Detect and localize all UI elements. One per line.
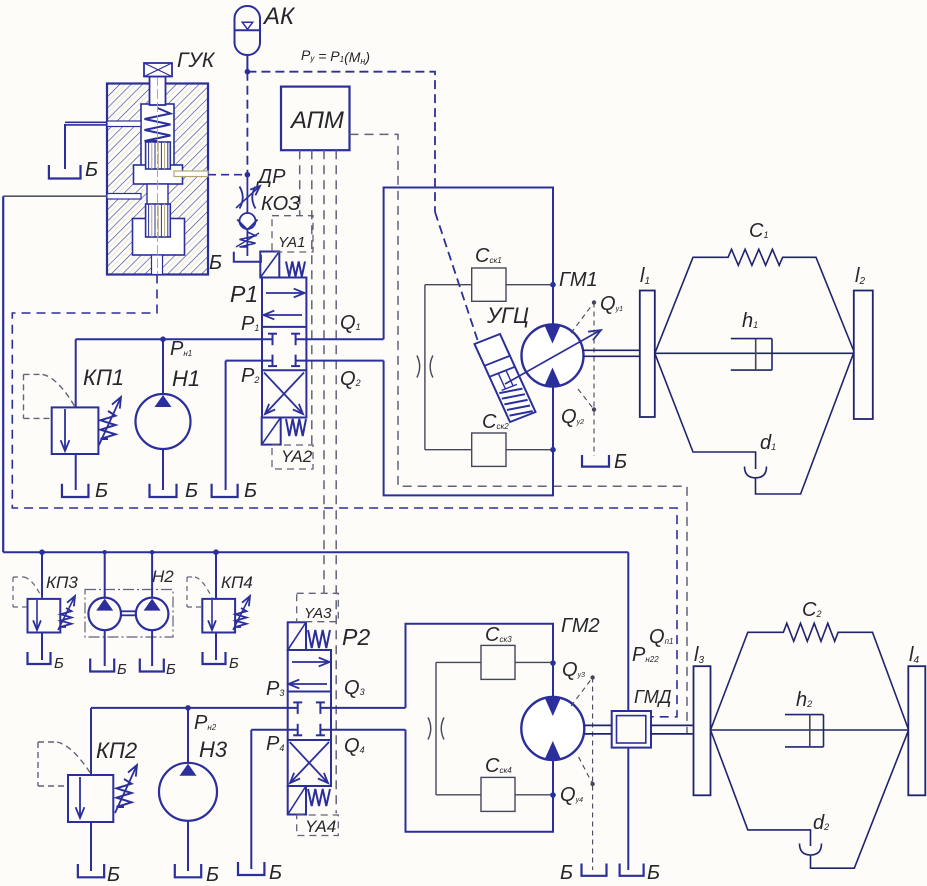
label B H2 right bbox=[166, 661, 176, 678]
wire KP4 drain bbox=[215, 633, 217, 661]
wire P4 drain line bbox=[251, 729, 297, 731]
label B GM1 bbox=[614, 451, 627, 473]
control cylinder UGC bbox=[475, 334, 536, 422]
svg-text:Н2: Н2 bbox=[152, 567, 174, 586]
tank B under H1 bbox=[150, 484, 177, 497]
relief valve KP2 bbox=[68, 765, 137, 822]
wire Q2 riser down bbox=[384, 361, 553, 496]
wire Q4 riser down bbox=[406, 730, 554, 832]
label APM bbox=[289, 107, 344, 134]
pilot dashed KP1 bbox=[24, 374, 75, 418]
node Cck4 bbox=[550, 792, 556, 798]
label KP2 bbox=[96, 738, 137, 763]
svg-text:Р2: Р2 bbox=[342, 624, 370, 650]
label B GMD bbox=[647, 862, 660, 884]
node PH1-H1 bbox=[160, 336, 166, 342]
relief valve KP1 bbox=[52, 397, 121, 454]
svg-text:ГМ2: ГМ2 bbox=[561, 615, 600, 637]
label KP3 bbox=[46, 573, 78, 592]
tank B at GUK bbox=[49, 165, 81, 179]
node AK junction bbox=[245, 69, 251, 75]
node Qy3 bbox=[590, 675, 594, 679]
wire Q1 riser up bbox=[384, 188, 553, 340]
svg-text:Б: Б bbox=[166, 661, 176, 678]
svg-text:УГЦ: УГЦ bbox=[486, 303, 529, 328]
pilot line Py dashed bbox=[247, 72, 477, 340]
label B KO3 bbox=[209, 252, 222, 274]
control line APM-YA4 dashed bbox=[335, 150, 337, 813]
valve P2 port stubs bbox=[293, 702, 325, 735]
spring YA4 bbox=[308, 789, 330, 806]
label B KP2 bbox=[107, 864, 120, 886]
valve P1 position-a arrows bbox=[264, 289, 305, 320]
svg-text:Н3: Н3 bbox=[199, 737, 228, 762]
svg-text:КП1: КП1 bbox=[83, 365, 124, 390]
spring C2 branch bbox=[711, 623, 909, 730]
label B P4 drain bbox=[269, 862, 282, 884]
wire Cck1 right bbox=[506, 284, 553, 286]
control line APM right dashed bbox=[350, 134, 688, 734]
tank B under KP2 bbox=[78, 864, 104, 877]
tank B under KP1 bbox=[62, 484, 88, 497]
damper h1 bbox=[731, 339, 772, 371]
label C1 bbox=[749, 220, 768, 242]
pump H1 bbox=[136, 394, 191, 449]
label P3 port bbox=[266, 678, 284, 700]
backlash d2 branch bbox=[711, 730, 909, 868]
node PH2-H3 bbox=[185, 705, 191, 711]
spring YA2 bbox=[286, 419, 306, 436]
wire P2 drain bbox=[225, 361, 227, 490]
label YA4 bbox=[305, 817, 336, 836]
spring YA3 bbox=[308, 630, 330, 648]
label UGC bbox=[486, 303, 529, 328]
wire H3 drain bbox=[187, 821, 189, 871]
pilot dashed KP3 bbox=[13, 577, 42, 607]
wire KP4 riser bbox=[215, 552, 217, 599]
label Q3 port bbox=[344, 677, 365, 699]
solenoid YA4 bbox=[288, 786, 306, 815]
node Cck2 bbox=[550, 447, 556, 453]
node KP4 tee bbox=[213, 549, 219, 555]
backlash d1 branch bbox=[655, 353, 854, 495]
control line APM-YA3 dashed bbox=[323, 150, 325, 593]
hydraulic motor GM2 bbox=[521, 697, 584, 760]
UGC displacement arrow bbox=[505, 330, 601, 384]
label B KP4 bbox=[229, 655, 239, 672]
label P1 port bbox=[241, 313, 259, 335]
label Cck4 bbox=[485, 755, 512, 777]
controller APM bbox=[281, 87, 350, 151]
wire KO3 to tank bbox=[246, 247, 248, 256]
wire Q3 riser up bbox=[406, 624, 554, 708]
wire AK to DR dashed bbox=[246, 72, 248, 175]
wire Q2 line bbox=[296, 360, 384, 362]
wire KP3 riser bbox=[41, 552, 43, 599]
pilot dashed KP4 bbox=[187, 577, 212, 607]
node H2 right tee bbox=[150, 550, 154, 554]
leakage box Cck2 bbox=[472, 433, 506, 466]
leakage box Cck3 bbox=[481, 645, 515, 679]
spring C1 branch bbox=[655, 249, 854, 353]
wire pump line bbox=[3, 551, 628, 553]
label Qy4 bbox=[560, 784, 583, 806]
solenoid YA2 bbox=[262, 418, 281, 445]
svg-text:Б: Б bbox=[107, 864, 120, 886]
label h2 bbox=[796, 689, 812, 711]
tank B at GM1 bbox=[582, 455, 609, 467]
valve P2 position-b crossed arrows bbox=[290, 742, 329, 783]
label P4 port bbox=[266, 733, 284, 755]
pilot dashed GUK loop bbox=[12, 275, 677, 717]
wire KP1 riser bbox=[75, 339, 77, 407]
wire GUK to tank B bbox=[65, 122, 107, 169]
label AK bbox=[262, 3, 296, 30]
node Cck1 bbox=[550, 282, 556, 288]
label B H2 left bbox=[117, 661, 127, 678]
svg-text:Б: Б bbox=[185, 480, 198, 502]
label P1 big bbox=[230, 281, 258, 307]
wire KP1 drain bbox=[75, 454, 77, 490]
wire Cck1 left bbox=[425, 284, 472, 286]
tank B at KO3 bbox=[234, 252, 261, 262]
label Py=P1(MH) bbox=[301, 47, 370, 66]
wire P2 port line bbox=[226, 360, 273, 362]
node H2 left tee bbox=[103, 550, 107, 554]
wire H1 drain bbox=[162, 448, 164, 490]
svg-text:ГМ1: ГМ1 bbox=[559, 269, 598, 291]
tank B under H2 left bbox=[90, 659, 114, 672]
wire Cck4 left bbox=[436, 794, 481, 796]
shaft GM1-l1 bbox=[583, 350, 640, 356]
solenoid YA3 bbox=[288, 622, 306, 650]
wire Cck3 right bbox=[515, 661, 553, 663]
pilot dashed GUK to DR bbox=[208, 174, 247, 176]
label DR bbox=[256, 166, 286, 188]
label B H3 bbox=[206, 864, 219, 886]
solenoid YA1 bbox=[260, 252, 279, 278]
label GMD bbox=[634, 687, 672, 707]
pump H2 right bbox=[136, 598, 169, 631]
wire PH2 line bbox=[91, 707, 298, 709]
valve P1 position-b crossed arrows bbox=[264, 373, 304, 415]
wire P4 drain riser bbox=[250, 730, 252, 869]
svg-text:КП4: КП4 bbox=[221, 573, 253, 592]
label GM2 bbox=[561, 615, 600, 637]
throttle DR bbox=[236, 175, 260, 213]
label PH1 bbox=[170, 338, 192, 360]
inertia plate l1 bbox=[640, 291, 655, 418]
svg-text:ГУК: ГУК bbox=[177, 49, 216, 72]
relief valve KP4 bbox=[202, 596, 250, 633]
tank B under P4 drain bbox=[238, 862, 264, 875]
svg-text:КП2: КП2 bbox=[96, 738, 137, 763]
wire AK down bbox=[246, 55, 248, 72]
inertia plate l3 bbox=[694, 666, 711, 795]
hydraulic control unit GUK bbox=[107, 63, 208, 275]
valve P2 position-a arrows bbox=[289, 658, 330, 689]
label B H1 bbox=[185, 480, 198, 502]
label GM1 bbox=[559, 269, 598, 291]
label KP1 bbox=[83, 365, 124, 390]
pilot box YA4 dashed bbox=[297, 815, 339, 836]
label P2 big bbox=[342, 624, 370, 650]
label Cck1 bbox=[475, 245, 502, 267]
label YA3 bbox=[304, 605, 332, 622]
wire H3 riser bbox=[187, 708, 189, 764]
svg-text:Б: Б bbox=[229, 655, 239, 672]
tank B at GM2 drain bbox=[582, 864, 607, 876]
shaft GM2-GMD bbox=[584, 725, 611, 734]
label YA2 bbox=[281, 447, 313, 466]
wire Q1 line bbox=[296, 338, 384, 340]
wire H2 right riser bbox=[151, 552, 153, 597]
svg-text:Н1: Н1 bbox=[172, 366, 200, 391]
relief valve KP3 bbox=[28, 596, 76, 633]
label d1 bbox=[760, 432, 776, 454]
valve P1 body bbox=[262, 278, 306, 418]
pilot box YA1 dashed bbox=[272, 216, 313, 252]
label Q2 port bbox=[340, 368, 361, 390]
label PH22 bbox=[632, 644, 659, 666]
wire H2 link bbox=[121, 611, 136, 615]
svg-text:Б: Б bbox=[560, 862, 573, 884]
wire far left vertical bbox=[2, 196, 4, 552]
svg-text:Б: Б bbox=[244, 480, 257, 502]
wire KP3 drain bbox=[41, 633, 43, 661]
inertia plate l2 bbox=[854, 291, 873, 420]
label l1 bbox=[640, 265, 650, 287]
tank B under H2 right bbox=[140, 659, 164, 672]
pilot dashed KP2 bbox=[38, 742, 91, 786]
pump H3 bbox=[159, 763, 217, 821]
svg-text:Б: Б bbox=[647, 862, 660, 884]
label Cck2 bbox=[482, 411, 509, 433]
node Cck3 bbox=[550, 660, 556, 666]
svg-text:АПМ: АПМ bbox=[289, 107, 344, 134]
control line APM-YA2 dashed bbox=[311, 150, 313, 445]
label H1 bbox=[172, 366, 200, 391]
wire Cck2 left bbox=[425, 449, 472, 451]
wire leakage vertical lower bbox=[435, 662, 437, 794]
shaft GMD-l3 bbox=[651, 725, 693, 734]
label Q1 port bbox=[340, 312, 361, 334]
svg-text:YA3: YA3 bbox=[304, 605, 332, 622]
tank B under P2 drain bbox=[212, 484, 238, 497]
label Qp1 bbox=[649, 626, 673, 648]
pump H2 left bbox=[88, 598, 121, 631]
label PH2 bbox=[194, 712, 217, 734]
svg-text:АК: АК bbox=[262, 3, 296, 30]
label Qy2 bbox=[561, 406, 584, 428]
gear unit GMD bbox=[612, 711, 651, 748]
wire H1 riser bbox=[162, 339, 164, 395]
tank B under H3 bbox=[175, 864, 201, 877]
leakage box Cck1 bbox=[472, 268, 506, 301]
wire Q4 line bbox=[320, 729, 405, 731]
label KP4 bbox=[221, 573, 253, 592]
tank B under KP4 bbox=[203, 652, 226, 664]
node Qy4 bbox=[590, 782, 594, 786]
wire leakage vertical bbox=[424, 285, 426, 450]
orifice symbol lower bbox=[428, 718, 444, 740]
label d2 bbox=[813, 812, 829, 834]
wire KP2 riser bbox=[90, 708, 92, 775]
wire H2 left riser bbox=[104, 552, 106, 597]
svg-text:ГМД: ГМД bbox=[634, 687, 672, 707]
svg-text:Б: Б bbox=[209, 252, 222, 274]
label Q4 port bbox=[344, 735, 365, 757]
label B KP1 bbox=[95, 480, 108, 502]
wire H2 right drain bbox=[151, 630, 153, 666]
pilot Qy3 dashed bbox=[571, 678, 593, 871]
label H3 bbox=[199, 737, 228, 762]
label P2 port bbox=[241, 365, 259, 387]
node KP3 tee bbox=[39, 549, 45, 555]
hydraulic motor GM1 bbox=[522, 325, 584, 387]
wire load1 center bbox=[655, 352, 854, 354]
label GUK bbox=[177, 49, 216, 72]
label h1 bbox=[742, 310, 758, 332]
wire Cck2 right bbox=[506, 449, 553, 451]
svg-text:Б: Б bbox=[95, 480, 108, 502]
svg-text:YA2: YA2 bbox=[281, 447, 313, 466]
label B GUK tank bbox=[85, 159, 98, 181]
pilot box YA2 dashed bbox=[272, 445, 313, 469]
wire H2 left drain bbox=[104, 630, 106, 666]
node Qy1 bbox=[592, 300, 596, 304]
GUK adjusting screw bbox=[144, 63, 172, 77]
label l2 bbox=[855, 265, 865, 287]
pilot Qy1 dashed bbox=[571, 303, 594, 457]
valve P2 body bbox=[288, 650, 331, 786]
svg-text:YA1: YA1 bbox=[278, 234, 306, 251]
svg-text:YA4: YA4 bbox=[305, 817, 336, 836]
valve P1 port stubs bbox=[268, 334, 300, 366]
wire Cck4 right bbox=[515, 794, 553, 796]
svg-text:КП3: КП3 bbox=[46, 573, 78, 592]
spring YA1 bbox=[286, 262, 305, 277]
label l3 bbox=[694, 644, 704, 666]
label l4 bbox=[909, 644, 919, 666]
label YA1 bbox=[278, 234, 306, 251]
svg-text:Б: Б bbox=[85, 159, 98, 181]
wire GMD drain bbox=[627, 748, 629, 870]
label B KP3 bbox=[54, 655, 64, 672]
wire PH22 riser bbox=[627, 552, 629, 711]
label H2 bbox=[152, 567, 174, 586]
label B GM2 left bbox=[560, 862, 573, 884]
wire PH1 line bbox=[76, 338, 273, 340]
svg-text:Б: Б bbox=[117, 661, 127, 678]
control line APM-YA1 dashed bbox=[299, 150, 301, 216]
pilot box YA3 dashed bbox=[297, 593, 339, 621]
orifice symbol upper bbox=[417, 356, 433, 378]
node Qy2 bbox=[592, 407, 596, 411]
wire load2 center bbox=[711, 729, 909, 731]
label KO3 bbox=[261, 193, 300, 215]
label C2 bbox=[802, 599, 821, 621]
tank B under GMD bbox=[620, 864, 644, 876]
svg-text:Б: Б bbox=[206, 864, 219, 886]
wire Q3 line bbox=[320, 707, 405, 709]
wire GUK supply left bbox=[3, 195, 107, 197]
leakage box Cck4 bbox=[481, 777, 515, 811]
damper h2 bbox=[785, 715, 824, 747]
svg-text:Б: Б bbox=[54, 655, 64, 672]
svg-text:Р1: Р1 bbox=[230, 281, 258, 307]
label Qy3 bbox=[562, 659, 585, 681]
label B P2 drain bbox=[244, 480, 257, 502]
inertia plate l4 bbox=[908, 666, 925, 795]
svg-text:КОЗ: КОЗ bbox=[261, 193, 300, 215]
node DR junction bbox=[245, 172, 251, 178]
svg-text:Б: Б bbox=[269, 862, 282, 884]
check valve KO3 bbox=[236, 213, 259, 247]
label Qy1 bbox=[600, 293, 623, 315]
svg-text:Б: Б bbox=[614, 451, 627, 473]
accumulator AK bbox=[235, 6, 261, 55]
wire KP2 drain bbox=[90, 822, 92, 871]
pump unit H2 boundary bbox=[85, 590, 173, 638]
label Cck3 bbox=[485, 624, 512, 646]
tank B under KP3 bbox=[28, 652, 51, 664]
wire Cck3 left bbox=[436, 661, 481, 663]
svg-text:ДР: ДР bbox=[256, 166, 286, 188]
